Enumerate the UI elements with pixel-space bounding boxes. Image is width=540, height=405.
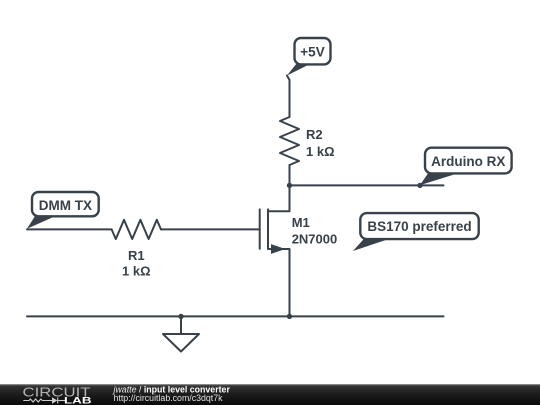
svg-text:BS170 preferred: BS170 preferred [367, 219, 471, 234]
node junction dot at drain [287, 183, 292, 188]
svg-text:1 kΩ: 1 kΩ [306, 144, 335, 159]
svg-text:+5V: +5V [300, 45, 324, 60]
wire ground rail [27, 315, 444, 317]
svg-text:DMM TX: DMM TX [39, 198, 92, 213]
transistor M1 source arrow [271, 244, 285, 254]
label R2 value [306, 127, 335, 159]
comment flag BS170 preferred [353, 213, 479, 251]
wire drain node to Arduino RX terminal [290, 184, 444, 186]
svg-text:Arduino RX: Arduino RX [431, 154, 505, 169]
wire source lead of M1 to ground rail [268, 249, 290, 316]
CircuitLab logo schematic squiggle [23, 397, 65, 403]
wire R1 to gate of M1 [161, 228, 260, 230]
wire R2 bottom to drain node [289, 165, 291, 185]
svg-text:http://circuitlab.com/c3dqt7k: http://circuitlab.com/c3dqt7k [114, 393, 224, 403]
wire ground stub [180, 316, 182, 334]
node junction dot at Arduino RX pin [417, 183, 422, 188]
node junction dot at source/ground rail [287, 314, 292, 319]
svg-text:R2: R2 [306, 127, 323, 142]
wire DMM TX to R1 [27, 228, 112, 230]
CircuitLab logo diode triangle [52, 397, 57, 404]
terminal flag Arduino RX [420, 148, 512, 186]
wire +5V to R2 top [287, 76, 290, 118]
wire drain lead of M1 [268, 185, 290, 211]
transistor M1 gate bar [259, 209, 261, 248]
terminal flag DMM TX [27, 192, 99, 229]
resistor R1 [112, 220, 161, 239]
label M1 value [292, 215, 338, 247]
transistor M1 channel bar [267, 209, 269, 248]
label R1 value [122, 248, 151, 279]
power flag +5V [287, 38, 331, 76]
svg-text:R1: R1 [128, 248, 145, 263]
svg-text:M1: M1 [292, 215, 310, 230]
ground symbol [163, 334, 199, 352]
svg-text:2N7000: 2N7000 [292, 232, 338, 247]
node junction dot at ground stub [178, 314, 183, 319]
resistor R2 [280, 117, 299, 165]
footer bar [0, 384, 540, 405]
svg-text:1 kΩ: 1 kΩ [122, 264, 151, 279]
svg-text:LAB: LAB [64, 396, 92, 405]
